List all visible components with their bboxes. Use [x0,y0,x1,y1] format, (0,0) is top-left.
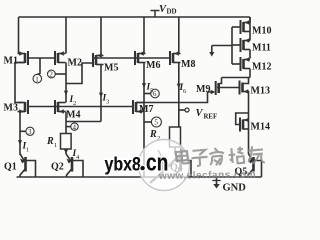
svg-text:www.elecfans.com: www.elecfans.com [158,169,256,182]
svg-text:M1: M1 [4,56,18,67]
svg-text:M13: M13 [251,86,270,97]
svg-text:Q2: Q2 [51,162,64,173]
svg-text:ybx8: ybx8 [105,153,142,175]
svg-text:M9: M9 [196,84,210,95]
svg-text:6: 6 [153,90,157,98]
svg-text:R: R [149,129,157,140]
svg-text:5: 5 [154,119,158,127]
svg-text:M10: M10 [252,26,271,37]
svg-text:3: 3 [28,128,32,136]
svg-text:DD: DD [167,8,177,16]
svg-text:M5: M5 [104,63,118,74]
svg-text:Q1: Q1 [4,162,17,173]
svg-text:M4: M4 [66,110,80,121]
svg-text:M6: M6 [146,60,160,71]
svg-text:M11: M11 [252,43,271,54]
svg-text:REF: REF [204,114,218,121]
svg-text:R: R [46,136,54,147]
svg-text:M8: M8 [181,59,195,70]
svg-text:1: 1 [26,147,29,154]
svg-text:2: 2 [73,100,76,107]
svg-text:GND: GND [223,183,247,194]
svg-text:2: 2 [49,71,53,79]
svg-text:1: 1 [54,142,57,149]
svg-text:5: 5 [150,88,153,95]
svg-text:1: 1 [35,75,39,83]
svg-text:3: 3 [106,99,109,106]
svg-text:M14: M14 [251,122,270,133]
svg-text:M12: M12 [252,62,271,73]
svg-text:cn: cn [146,148,168,176]
svg-text:V: V [196,108,204,119]
svg-text:M2: M2 [68,58,82,69]
svg-text:4: 4 [73,123,77,131]
svg-text:M3: M3 [4,103,18,114]
svg-text:M7: M7 [139,104,153,115]
